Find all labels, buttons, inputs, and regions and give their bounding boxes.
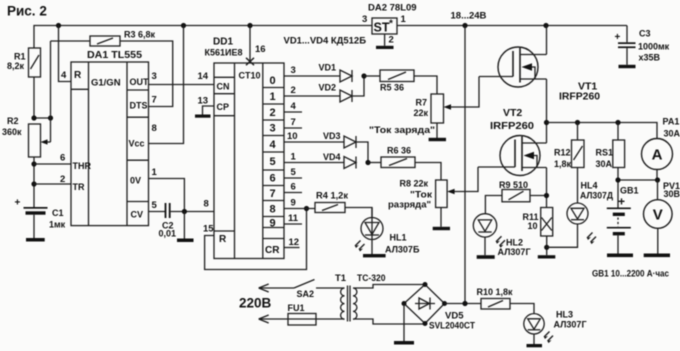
- pin R cell DD1: [214, 230, 235, 232]
- svg-text:SA2: SA2: [297, 289, 315, 299]
- wire R8 bottom to ground: [440, 208, 442, 227]
- wire VT2 source down: [546, 168, 548, 208]
- LED HL3: [524, 314, 544, 334]
- wire R3/wiper vertical: [50, 41, 52, 142]
- wire R6 to R8 top: [415, 163, 441, 181]
- ground C2: [177, 239, 194, 243]
- pin 5 CV wire: [149, 211, 166, 213]
- pin 3 OUT wire to DD1 CN: [149, 84, 215, 86]
- svg-text:5: 5: [270, 156, 276, 168]
- svg-text:Vcc: Vcc: [129, 139, 145, 149]
- ground C3: [619, 65, 636, 68]
- svg-text:IRFP260: IRFP260: [490, 120, 534, 132]
- wire R1 bottom to node: [34, 77, 51, 118]
- svg-text:HL3: HL3: [556, 310, 573, 320]
- svg-text:Т1: Т1: [335, 273, 347, 284]
- pin 5 stub out6: [284, 177, 302, 179]
- svg-text:АЛ307Б: АЛ307Б: [385, 245, 420, 255]
- resistor R1: [29, 48, 41, 77]
- switch SA2: [294, 280, 315, 289]
- pin 2 DA2 to ground: [384, 34, 386, 46]
- svg-text:A: A: [652, 147, 663, 164]
- resistor R11: [541, 208, 553, 237]
- pin OUT cell: [127, 89, 149, 91]
- wire C3 to ground: [626, 48, 628, 65]
- svg-text:3: 3: [270, 123, 276, 135]
- svg-text:11: 11: [288, 213, 299, 224]
- svg-text:2: 2: [291, 85, 296, 96]
- svg-text:30В: 30В: [664, 189, 680, 199]
- svg-text:R9 510: R9 510: [499, 180, 528, 190]
- node R9 junction: [544, 193, 549, 198]
- node VD1/VD2 junction: [361, 73, 366, 78]
- node R11/HL4 junction: [544, 245, 549, 250]
- svg-text:R8 22к: R8 22к: [400, 179, 429, 189]
- svg-text:RS1: RS1: [596, 148, 614, 158]
- svg-text:OUT: OUT: [130, 77, 150, 87]
- svg-text:9: 9: [270, 218, 276, 230]
- svg-text:АЛ307Д: АЛ307Д: [580, 191, 614, 201]
- node bridge output junction: [462, 301, 467, 306]
- svg-text:ТС-320: ТС-320: [357, 273, 386, 284]
- pin 15 wire R reset loop: [205, 209, 307, 270]
- wire R2 wiper arrow: [46, 141, 51, 143]
- pin 6 THR wire: [34, 163, 71, 165]
- svg-text:CN: CN: [217, 82, 230, 92]
- svg-text:8,2к: 8,2к: [7, 61, 25, 71]
- svg-text:х35В: х35В: [639, 53, 661, 63]
- svg-text:360к: 360к: [2, 127, 22, 137]
- pin 9 stub out8: [284, 208, 315, 210]
- svg-text:DD1: DD1: [213, 37, 233, 48]
- svg-text:"Ток заряда": "Ток заряда": [369, 125, 435, 136]
- svg-text:5: 5: [291, 167, 297, 178]
- pin 1 stub out5: [284, 162, 344, 164]
- svg-text:1: 1: [291, 152, 297, 163]
- ground PV1: [644, 254, 670, 258]
- svg-text:АЛ307Г: АЛ307Г: [498, 247, 531, 257]
- ground CP: [195, 115, 211, 118]
- core T1: [348, 286, 351, 322]
- winding T1 secondary: [353, 288, 357, 319]
- pin 1 0V wire: [149, 179, 185, 212]
- svg-text:*: *: [389, 19, 393, 30]
- svg-text:C1: C1: [52, 208, 64, 218]
- wire VT1 drain to rail: [546, 26, 548, 55]
- ground bridge: [394, 341, 414, 345]
- svg-text:15: 15: [203, 224, 214, 235]
- svg-text:8: 8: [204, 199, 209, 210]
- ground R11: [538, 255, 556, 258]
- svg-text:PA1: PA1: [663, 117, 680, 127]
- svg-text:4: 4: [291, 101, 297, 112]
- wire main vertical from bridge: [464, 26, 466, 304]
- node PV1 junction: [655, 177, 660, 182]
- svg-text:7: 7: [291, 117, 296, 128]
- svg-text:30A: 30A: [596, 159, 613, 169]
- svg-text:FU1: FU1: [288, 303, 305, 313]
- svg-text:TR: TR: [73, 182, 85, 192]
- node bridge top: [423, 282, 428, 287]
- svg-text:8: 8: [270, 204, 276, 216]
- svg-text:R7: R7: [416, 98, 428, 108]
- node bridge right: [442, 301, 447, 306]
- output cells 0-9 lines: [263, 88, 284, 239]
- svg-text:3: 3: [152, 71, 157, 82]
- node pin9/R4 junction: [304, 206, 309, 211]
- wire RS1 bottom: [617, 168, 619, 209]
- pin 3 stub out0: [284, 75, 340, 77]
- svg-text:6: 6: [60, 153, 65, 164]
- pin 11 stub out9: [284, 223, 302, 225]
- svg-text:DTS: DTS: [130, 101, 148, 111]
- node rail/VT1 drain junction: [543, 23, 548, 28]
- svg-text:VD1...VD4 КД512Б: VD1...VD4 КД512Б: [284, 36, 367, 47]
- svg-text:0V: 0V: [130, 176, 141, 186]
- capacitor C1: [33, 207, 35, 208]
- wire VT2 gate lead: [478, 166, 515, 168]
- svg-text:8: 8: [152, 123, 157, 134]
- wire R12 top: [577, 123, 579, 141]
- node source rail junction: [544, 120, 549, 125]
- pin 4 wire DA1 reset: [59, 26, 72, 82]
- wire GB1 to ground: [617, 235, 619, 253]
- resistor R3: [90, 36, 120, 46]
- winding T1 primary: [341, 288, 345, 319]
- wire VT1 gate lead: [479, 76, 513, 78]
- wire mains line 2 arrow: [259, 318, 345, 320]
- svg-text:6: 6: [291, 182, 296, 193]
- svg-text:1мк: 1мк: [49, 220, 66, 230]
- svg-text:220В: 220В: [239, 296, 272, 311]
- svg-text:разряда": разряда": [388, 200, 431, 211]
- svg-text:3: 3: [362, 14, 367, 25]
- svg-text:R3 6,8к: R3 6,8к: [124, 30, 156, 40]
- wire R10 to HL3: [510, 304, 534, 314]
- svg-text:2: 2: [60, 174, 65, 185]
- resistor R12: [572, 140, 585, 168]
- svg-text:12: 12: [289, 237, 300, 248]
- pin 12 stub CR: [284, 247, 300, 249]
- wire R4 to HL1: [345, 208, 372, 218]
- wire VD4 node to R6: [368, 162, 381, 164]
- wire R3 right to DTS: [120, 41, 173, 107]
- svg-text:+: +: [615, 32, 621, 43]
- node bridge left: [402, 301, 407, 306]
- wire R11 bottom to ground: [546, 236, 548, 255]
- svg-text:18...24В: 18...24В: [451, 11, 487, 22]
- pin 16 power mark X: [249, 26, 251, 62]
- svg-text:2: 2: [389, 35, 394, 46]
- wire R2 bottom to C1: [33, 157, 35, 207]
- resistor R2 (potentiometer): [29, 124, 41, 157]
- svg-text:+: +: [618, 195, 625, 209]
- ground DA2: [376, 46, 394, 49]
- wire R5 to R7 top: [414, 76, 437, 94]
- svg-text:14: 14: [198, 71, 209, 82]
- svg-text:R2: R2: [7, 116, 19, 126]
- svg-text:7: 7: [270, 188, 276, 200]
- svg-text:GB1 10...2200 А·час: GB1 10...2200 А·час: [592, 269, 669, 280]
- rectifier bridge VD5: [404, 285, 445, 324]
- wire VD1 node to R5: [364, 75, 380, 77]
- wire C2 to DD1 pin8: [171, 211, 214, 213]
- node VD3/VD4 junction: [365, 160, 370, 165]
- ground HL1: [363, 254, 386, 257]
- wire VT1 source to VT2 drain: [546, 79, 548, 143]
- svg-text:R10 1,8к: R10 1,8к: [477, 287, 514, 297]
- svg-text:10: 10: [287, 131, 298, 142]
- node rail-Vcc junction: [181, 23, 186, 28]
- wire RS1 top: [617, 123, 619, 141]
- svg-text:VT2: VT2: [503, 107, 522, 119]
- ground GB1: [607, 254, 633, 258]
- pin 10 stub out4: [284, 141, 344, 143]
- svg-text:1,8к: 1,8к: [554, 159, 572, 169]
- svg-text:3: 3: [291, 65, 296, 76]
- svg-text:CP: CP: [217, 102, 230, 112]
- pin 7 stub out3: [284, 127, 302, 129]
- node R12 top junction: [575, 120, 580, 125]
- pin R cell DA1: [71, 88, 89, 90]
- svg-text:+: +: [15, 198, 21, 209]
- pin 6 stub out7: [284, 192, 302, 194]
- pin 4 stub out2: [284, 111, 302, 113]
- node rail/bridge junction: [462, 23, 467, 28]
- svg-text:R4 1,2к: R4 1,2к: [316, 191, 349, 201]
- pin 2 TR wire: [34, 183, 71, 185]
- svg-text:R: R: [74, 70, 82, 81]
- shunt RS1: [613, 140, 625, 168]
- resistor R5: [380, 70, 414, 82]
- pin 13 wire CP to ground: [203, 106, 215, 115]
- svg-text:CR: CR: [265, 245, 280, 256]
- svg-text:ST: ST: [374, 21, 390, 35]
- svg-text:SVL2040CT: SVL2040CT: [429, 321, 475, 332]
- svg-text:VD3: VD3: [323, 131, 341, 141]
- wire bridge right to R10: [445, 303, 482, 305]
- LED HL2: [473, 214, 496, 237]
- ground HL3: [527, 344, 543, 347]
- wire secondary top to bridge: [353, 285, 424, 289]
- node C2/0V junction: [182, 209, 187, 214]
- resistor R7 (potentiometer): [431, 94, 444, 123]
- wire R9 left to HL2: [485, 196, 502, 214]
- svg-text:HL1: HL1: [390, 233, 407, 243]
- svg-text:VD2: VD2: [319, 83, 337, 93]
- svg-text:CV: CV: [131, 210, 144, 220]
- svg-text:V: V: [653, 207, 663, 224]
- pin DTS cell: [127, 116, 149, 118]
- svg-text:АЛ307Г: АЛ307Г: [554, 320, 587, 330]
- svg-text:R1: R1: [14, 52, 26, 62]
- node R1/R2 junction: [31, 115, 36, 120]
- wire R7 wiper to VT1 gate: [449, 77, 479, 108]
- svg-text:9: 9: [291, 198, 296, 209]
- wire R8 wiper to VT2 gate: [453, 167, 479, 192]
- wire VD2 up to VD1 node: [352, 76, 364, 96]
- resistor R8 (potentiometer): [436, 180, 448, 208]
- wire C1 to ground: [33, 215, 35, 238]
- wire R3 left: [51, 40, 91, 42]
- svg-text:0,01: 0,01: [159, 229, 177, 239]
- svg-text:HL4: HL4: [581, 181, 598, 191]
- svg-text:1: 1: [270, 91, 276, 103]
- pin 0V cell: [127, 201, 149, 203]
- wire mains line 1 arrow: [259, 287, 294, 289]
- svg-text:DA2 78L09: DA2 78L09: [368, 3, 417, 14]
- svg-text:10: 10: [528, 221, 538, 231]
- svg-text:R5 36: R5 36: [380, 83, 404, 93]
- node TR junction: [31, 181, 36, 186]
- pin 8 Vcc wire to rail: [149, 26, 184, 144]
- resistor R6: [381, 157, 415, 168]
- node rail-DD1pin16 junction: [247, 23, 252, 28]
- wire PA1 bottom: [656, 170, 658, 181]
- pin CP cell: [214, 115, 235, 117]
- svg-text:R: R: [219, 234, 227, 245]
- wire VD3 down to VD4 node: [356, 142, 368, 163]
- svg-text:DA1 TL555: DA1 TL555: [87, 50, 142, 61]
- wire R9 right to source line: [530, 195, 547, 197]
- wire R7 bottom to ground: [436, 123, 438, 138]
- svg-text:2: 2: [270, 107, 276, 119]
- svg-text:6: 6: [270, 173, 276, 185]
- wire R12 to HL4: [577, 168, 579, 204]
- svg-text:VD1: VD1: [319, 63, 337, 73]
- pin CN cell: [214, 76, 235, 78]
- svg-text:30A: 30A: [664, 129, 680, 139]
- wire bridge left to ground: [403, 304, 405, 342]
- node RS1 top junction: [615, 120, 620, 125]
- capacitor C3: [626, 26, 628, 43]
- svg-text:1: 1: [152, 167, 158, 178]
- capacitor C2: [165, 203, 167, 218]
- svg-text:VD4: VD4: [323, 152, 341, 162]
- wire secondary bottom to bridge: [353, 319, 424, 324]
- svg-text:4: 4: [270, 139, 277, 151]
- svg-text:Рис. 2: Рис. 2: [7, 4, 47, 19]
- svg-text:G1/GN: G1/GN: [91, 78, 121, 89]
- svg-text:HL2: HL2: [506, 238, 523, 248]
- svg-text:R12: R12: [554, 148, 571, 158]
- wire +9V left rail: [34, 26, 372, 49]
- svg-text:К561ИЕ8: К561ИЕ8: [205, 48, 243, 59]
- wire battery top link: [618, 179, 658, 181]
- node bridge bottom: [423, 321, 428, 326]
- wire ammeter rail: [547, 123, 658, 139]
- LED HL1: [361, 218, 383, 240]
- wire +18-24V right rail: [397, 25, 627, 27]
- svg-text:7: 7: [152, 95, 157, 106]
- svg-text:4: 4: [61, 70, 67, 81]
- node GB1 junction: [615, 177, 620, 182]
- node rail-R1R3 junction: [56, 23, 61, 28]
- svg-text:C3: C3: [639, 29, 651, 39]
- svg-text:CT10: CT10: [239, 71, 261, 81]
- svg-text:1000мк: 1000мк: [638, 42, 670, 52]
- ground C1: [26, 238, 45, 242]
- svg-text:16: 16: [255, 44, 266, 55]
- svg-text:5: 5: [152, 200, 158, 211]
- svg-text:22к: 22к: [414, 108, 429, 118]
- svg-text:1: 1: [401, 14, 407, 25]
- svg-text:R6 36: R6 36: [387, 146, 411, 156]
- svg-text:THR: THR: [73, 161, 92, 171]
- wire PV1 to ground: [657, 228, 659, 253]
- svg-text:IRFP260: IRFP260: [559, 91, 600, 103]
- node R2 wiper tie junction: [48, 115, 53, 120]
- wire junction to ground: [183, 212, 185, 239]
- svg-text:13: 13: [198, 96, 209, 107]
- node THR junction: [31, 161, 36, 166]
- pin 2 stub out1: [284, 95, 340, 97]
- ground HL2: [477, 255, 495, 259]
- pin Vcc cell: [127, 159, 149, 161]
- ground R8: [433, 227, 450, 230]
- ground R7: [429, 138, 446, 141]
- svg-text:0: 0: [270, 75, 276, 87]
